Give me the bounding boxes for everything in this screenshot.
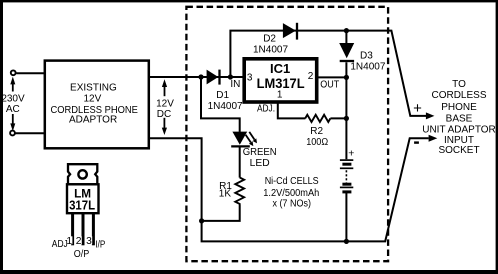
- svg-text:I/P: I/P: [95, 240, 105, 251]
- svg-text:BASE: BASE: [446, 114, 473, 125]
- svg-text:CORDLESS: CORDLESS: [431, 90, 486, 101]
- svg-text:D2: D2: [263, 34, 276, 45]
- svg-text:R2: R2: [310, 126, 323, 137]
- svg-text:LED: LED: [250, 158, 270, 169]
- svg-text:1N4007: 1N4007: [208, 101, 243, 112]
- svg-text:ADJ: ADJ: [52, 239, 68, 250]
- svg-text:12V: 12V: [84, 94, 102, 105]
- svg-text:SOCKET: SOCKET: [438, 145, 479, 156]
- svg-text:AC: AC: [6, 104, 20, 115]
- svg-text:3: 3: [247, 72, 253, 83]
- svg-text:D3: D3: [360, 51, 373, 62]
- svg-text:12V: 12V: [156, 98, 174, 109]
- svg-text:3: 3: [86, 236, 92, 247]
- svg-text:1N4007: 1N4007: [253, 45, 288, 56]
- svg-text:D1: D1: [216, 90, 229, 101]
- svg-text:ADJ.: ADJ.: [257, 104, 275, 115]
- svg-text:PHONE: PHONE: [441, 102, 477, 113]
- svg-text:230V: 230V: [1, 93, 25, 104]
- svg-text:1.2V/500mAh: 1.2V/500mAh: [263, 188, 319, 199]
- svg-text:OUT: OUT: [320, 80, 339, 91]
- svg-text:1K: 1K: [219, 189, 232, 200]
- svg-text:EXISTING: EXISTING: [70, 82, 117, 93]
- svg-text:IN: IN: [230, 79, 240, 90]
- svg-text:2: 2: [308, 71, 314, 82]
- svg-text:IC1: IC1: [270, 61, 290, 76]
- svg-text:Ni-Cd CELLS: Ni-Cd CELLS: [265, 176, 319, 187]
- svg-text:317L: 317L: [69, 198, 95, 213]
- svg-text:TO: TO: [452, 79, 466, 90]
- svg-text:1N4007: 1N4007: [350, 61, 385, 72]
- svg-text:ADAPTOR: ADAPTOR: [69, 115, 117, 126]
- svg-text:100Ω: 100Ω: [306, 137, 328, 148]
- svg-text:x (7 NOs): x (7 NOs): [272, 198, 311, 209]
- svg-text:+: +: [348, 148, 354, 160]
- svg-text:O/P: O/P: [74, 249, 90, 260]
- svg-text:1: 1: [277, 90, 283, 101]
- svg-text:DC: DC: [157, 109, 171, 120]
- svg-text:2: 2: [76, 236, 82, 247]
- svg-text:+: +: [413, 100, 422, 117]
- svg-text:UNIT ADAPTOR: UNIT ADAPTOR: [422, 124, 496, 135]
- svg-text:GREEN: GREEN: [243, 147, 277, 158]
